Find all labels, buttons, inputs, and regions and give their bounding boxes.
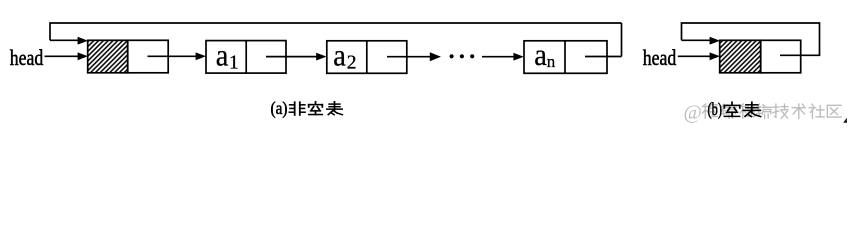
svg-text:a: a (333, 38, 346, 72)
wire pointer a2 toward ellipsis (387, 52, 441, 61)
caption glyph kong (309, 102, 323, 115)
svg-text:2: 2 (347, 53, 357, 74)
ellipsis (omitted nodes) (450, 54, 475, 58)
svg-text:a: a (534, 38, 547, 72)
svg-text:n: n (547, 52, 556, 71)
svg-text:head: head (10, 45, 44, 70)
node a2 (327, 41, 407, 74)
label an (534, 38, 547, 72)
watermark glyph ji (773, 104, 788, 118)
watermark glyph shu (792, 104, 805, 119)
wire pointer head-node to a1 (148, 52, 207, 60)
label a2 (333, 38, 346, 72)
svg-text:(a): (a) (271, 98, 288, 118)
caption glyph kong (b) (724, 102, 739, 116)
node head (hatched) of list (a) (88, 40, 169, 73)
node head (hatched) of list (b) (720, 40, 801, 73)
wire circular loop-back from node an to head node (50, 23, 622, 57)
node a1 (206, 41, 286, 74)
svg-text:(b): (b) (708, 99, 723, 119)
wire head pointer arrow (b) (678, 52, 720, 60)
svg-text:a: a (216, 38, 229, 72)
label a1 (216, 38, 229, 72)
wire pointer a1 to a2 (266, 53, 327, 61)
caption glyph biao (b) (743, 102, 760, 116)
node an (524, 41, 607, 74)
watermark glyph she (809, 104, 824, 118)
wire circular self loop (b) (682, 23, 820, 55)
svg-text:1: 1 (229, 53, 239, 74)
wire pointer an exits right to loop-back (585, 56, 622, 58)
caption glyph fei (289, 102, 305, 115)
wire ellipsis to node an (482, 53, 524, 61)
watermark glyph qu (827, 105, 841, 117)
tiny cursor mark (843, 118, 847, 123)
svg-text:head: head (643, 45, 677, 70)
caption glyph biao (327, 102, 342, 115)
watermark hidden glyphs (702, 104, 771, 118)
wire head pointer arrow (a) (45, 52, 89, 60)
svg-text:@: @ (684, 102, 702, 124)
